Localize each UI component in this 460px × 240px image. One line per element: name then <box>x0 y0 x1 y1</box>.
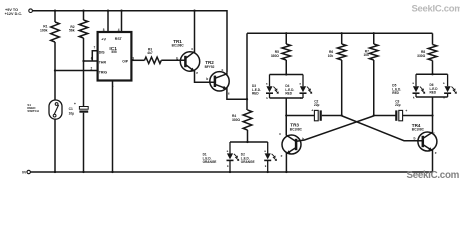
capacitor C3 22u electrolytic <box>373 99 434 121</box>
svg-text:e: e <box>196 71 198 75</box>
svg-text:7: 7 <box>94 46 96 50</box>
svg-text:+V: +V <box>101 37 106 41</box>
transistor TR1 BC108C <box>172 39 200 75</box>
wire TR2 collector lead <box>226 72 228 75</box>
wire cross coupling C3 to TR3 base <box>297 116 374 141</box>
svg-text:0V: 0V <box>22 171 27 175</box>
svg-text:DIS: DIS <box>99 51 106 55</box>
pin 6 THR wire <box>82 56 97 62</box>
pin 2 TRIG wire <box>54 66 98 71</box>
wire D3-D4 cathodes to TR3 collector <box>285 98 287 136</box>
transistor TR3 BC108C <box>279 122 304 158</box>
led D5 red <box>392 74 425 99</box>
svg-text:BC108C: BC108C <box>412 128 425 132</box>
svg-text:330Ω: 330Ω <box>417 54 425 58</box>
svg-text:1: 1 <box>112 84 114 88</box>
wire rail left drop <box>246 33 248 110</box>
svg-text:RED: RED <box>392 91 399 95</box>
svg-text:ORANGE: ORANGE <box>203 160 217 164</box>
pin 7 DIS jog wire <box>92 46 97 61</box>
resistor R1 100k <box>40 10 59 100</box>
svg-text:b: b <box>176 57 178 61</box>
wire right supply rail <box>247 32 433 34</box>
svg-text:10k: 10k <box>328 54 334 58</box>
resistor R6 10k <box>328 32 346 115</box>
svg-text:10k: 10k <box>363 53 369 57</box>
svg-text:BC108C: BC108C <box>172 44 185 48</box>
pin 4 RST stub <box>118 10 123 33</box>
ground terminal 0V <box>22 170 30 174</box>
svg-text:2: 2 <box>91 66 93 70</box>
svg-text:+12V D.C.: +12V D.C. <box>5 12 23 16</box>
capacitor C2 22u electrolytic <box>286 100 343 121</box>
wire TR1 emitter to TR2 base <box>195 70 215 82</box>
led D1 orange <box>203 142 240 173</box>
svg-text:SWITCH: SWITCH <box>27 109 38 113</box>
svg-text:ORANGE: ORANGE <box>241 160 255 164</box>
svg-text:BC108C: BC108C <box>290 127 303 131</box>
wire TR4 collector from D5-D6 cathodes <box>432 97 434 134</box>
svg-text:c: c <box>191 47 193 51</box>
svg-text:4: 4 <box>118 28 120 32</box>
svg-text:O/P: O/P <box>122 60 129 64</box>
svg-text:e: e <box>281 154 283 158</box>
svg-text:e: e <box>435 151 437 155</box>
svg-text:b: b <box>206 77 208 81</box>
svg-text:56k: 56k <box>69 29 75 33</box>
led D2 orange <box>241 142 277 173</box>
wire cross coupling C2 to TR4 base <box>342 116 423 141</box>
wire S1 to 0V rail <box>54 119 56 173</box>
svg-text:SeekIC.com: SeekIC.com <box>407 170 460 181</box>
resistor R4 330R <box>232 110 252 142</box>
led D3 red <box>252 75 279 101</box>
svg-text:THR: THR <box>99 60 107 64</box>
resistor R3 4k7 <box>145 47 186 63</box>
watermark SeekIC.com top right <box>412 3 460 14</box>
pin 3 output wire <box>131 56 144 60</box>
svg-text:c: c <box>279 132 281 136</box>
junction dots on 0V rail <box>111 171 113 173</box>
resistor R2 56k <box>69 10 88 107</box>
capacitor C1 10u electrolytic <box>69 102 89 173</box>
svg-text:SeekIC.com: SeekIC.com <box>412 3 460 14</box>
svg-text:b: b <box>414 137 416 141</box>
svg-text:22µ: 22µ <box>314 103 320 107</box>
svg-text:555: 555 <box>111 50 116 54</box>
wire TR1 collector to rail <box>193 10 195 54</box>
power terminal +9V..+12V input <box>5 8 33 16</box>
svg-text:e: e <box>228 91 230 95</box>
resistor R5 330R <box>271 32 291 74</box>
svg-text:RED: RED <box>285 92 292 96</box>
svg-text:+: + <box>311 109 313 113</box>
svg-text:+: + <box>405 109 407 113</box>
led D4 red <box>285 75 312 101</box>
wire LED box D1-D2 top <box>230 141 268 143</box>
reed switch S1 <box>27 100 62 119</box>
wire TR2 emitter to R4 column <box>227 88 247 99</box>
transistor TR4 BC108C <box>412 123 437 155</box>
svg-text:6: 6 <box>91 56 93 60</box>
wire top supply rail to TR2 collector <box>32 11 227 72</box>
svg-text:100k: 100k <box>40 29 48 33</box>
svg-text:c: c <box>221 68 223 72</box>
svg-text:TRIG: TRIG <box>99 70 108 74</box>
wire 0V ground rail <box>31 171 433 173</box>
wire LED box D5-D6 frame <box>416 73 448 97</box>
op-amp timer IC1 555 <box>98 32 132 81</box>
svg-text:RED: RED <box>430 91 437 95</box>
pin 1 ground stub <box>112 81 114 173</box>
pin 8 +V stub <box>103 10 109 33</box>
resistor R8 330R <box>417 33 437 74</box>
svg-text:8: 8 <box>103 28 105 32</box>
svg-text:3: 3 <box>132 56 134 60</box>
svg-text:RED: RED <box>252 92 259 96</box>
transistor TR2 BFY52 <box>205 60 230 95</box>
watermark SeekIC.com <box>407 170 460 181</box>
svg-text:b: b <box>302 137 304 141</box>
wire LED box D3-D4 frame <box>270 73 304 98</box>
svg-text:BFY52: BFY52 <box>205 65 215 69</box>
svg-text:RST: RST <box>115 37 123 41</box>
wire TR4 emitter to 0V rail <box>432 150 434 173</box>
svg-text:10µ: 10µ <box>69 111 75 115</box>
svg-text:+: + <box>74 102 76 106</box>
svg-text:4k7: 4k7 <box>147 51 153 55</box>
svg-text:330Ω: 330Ω <box>232 118 240 122</box>
svg-text:22µ: 22µ <box>395 103 401 107</box>
wire TR3 emitter to 0V rail <box>285 153 287 174</box>
led D6 red <box>430 74 457 99</box>
resistor R7 10k <box>363 32 378 115</box>
svg-text:c: c <box>433 131 435 135</box>
svg-text:330Ω: 330Ω <box>271 54 279 58</box>
